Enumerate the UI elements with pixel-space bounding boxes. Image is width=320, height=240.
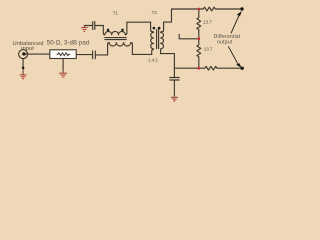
T1 phase dot left <box>107 29 110 32</box>
T1 primary winding <box>103 22 127 35</box>
ground G1 under source <box>20 69 27 79</box>
ground G4 bottom right <box>171 95 178 101</box>
output terminal dot top <box>240 7 243 10</box>
capacitor C2 plates <box>93 22 95 30</box>
capacitor C3 plates <box>170 78 179 81</box>
T2 core lines <box>157 30 159 49</box>
T1 phase dot right <box>121 29 124 32</box>
T1 core lines <box>105 38 126 40</box>
wire T1 top-right to T2 top-left <box>127 21 151 23</box>
wire T2 bottom-right to descender <box>161 54 175 78</box>
capacitor C1 plates <box>93 51 96 59</box>
arrow to top output <box>231 12 241 33</box>
ground G3 under pad box <box>59 70 67 77</box>
junction dot under source <box>22 67 25 70</box>
wire T1 bottom-right to T2 bottom-left <box>132 53 151 55</box>
wire source to pad <box>24 53 50 55</box>
source center dot <box>22 52 25 55</box>
svg-text:1.4:1: 1.4:1 <box>148 58 159 63</box>
resistor R3 vertical bottom 13.7 <box>197 39 201 68</box>
junction dot mid rail <box>197 37 200 40</box>
wire pad bottom stub to ground <box>62 59 64 71</box>
T2 left winding <box>151 22 154 54</box>
wire cap C2 to ground G2 <box>84 25 92 27</box>
resistor R2 vertical top 13.7 <box>197 9 201 39</box>
wire cap C3 to ground G4 <box>173 81 175 95</box>
wire T2 top-right staircase to top rail <box>164 9 199 22</box>
svg-text:13.7: 13.7 <box>203 19 212 24</box>
T2 phase dot right <box>158 27 161 30</box>
T1 secondary winding <box>108 43 133 55</box>
junction dot bottom rail <box>197 67 200 70</box>
output terminal dot bottom <box>241 67 244 70</box>
wire center tap connector <box>179 34 199 39</box>
svg-text:input: input <box>21 46 34 52</box>
source V1 circle <box>19 50 28 59</box>
T2 phase dot left <box>153 27 156 30</box>
svg-text:output: output <box>217 39 233 45</box>
svg-text:T1: T1 <box>113 10 119 15</box>
wire pad to cap C1 <box>76 54 92 56</box>
resistor R4 bottom rail <box>199 66 242 70</box>
arrow to bottom output <box>228 46 240 67</box>
wire cap C1 to T1 bottom left <box>96 54 108 56</box>
resistor in pad box <box>57 53 71 56</box>
junction dot top rail <box>197 8 200 11</box>
wire source down to ground <box>22 59 24 68</box>
ground G2 top-left cap <box>81 26 87 32</box>
svg-text:50-Ω, 3-dB pad: 50-Ω, 3-dB pad <box>47 41 90 47</box>
T2 right winding <box>161 22 164 53</box>
pad box <box>50 50 76 59</box>
svg-text:13.7: 13.7 <box>204 46 213 51</box>
resistor R1 top rail <box>199 7 242 11</box>
svg-text:T2: T2 <box>152 10 158 15</box>
bottom rail <box>174 67 198 69</box>
wire T1 top-left to cap C2 <box>95 25 103 27</box>
